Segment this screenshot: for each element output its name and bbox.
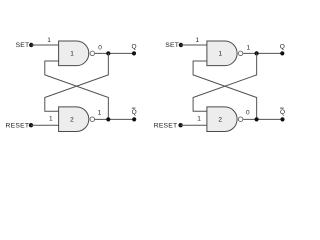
svg-text:1: 1 bbox=[98, 110, 102, 117]
svg-text:Q: Q bbox=[131, 43, 136, 50]
output bubble U2 (left latch) bbox=[90, 117, 95, 122]
output bubble U1 (left latch) bbox=[90, 51, 95, 56]
terminal dot SET (right latch) bbox=[179, 43, 183, 47]
terminal dot Q (right latch) bbox=[280, 51, 284, 55]
svg-text:2: 2 bbox=[70, 117, 74, 124]
wire U1 output to Q (right latch) bbox=[243, 52, 282, 54]
svg-text:SET: SET bbox=[165, 42, 179, 49]
junction dot on Q node (right latch) bbox=[255, 51, 259, 55]
svg-text:1: 1 bbox=[197, 115, 201, 122]
terminal dot Q (left latch) bbox=[132, 51, 136, 55]
wire U2 output to Q̄ (left latch) bbox=[95, 118, 134, 120]
svg-text:0: 0 bbox=[246, 110, 250, 117]
output bubble U2 (right latch) bbox=[238, 117, 243, 122]
junction dot on Q node (left latch) bbox=[106, 51, 110, 55]
svg-text:1: 1 bbox=[49, 115, 53, 122]
wire SET to U1 input pin (right latch) bbox=[181, 44, 207, 46]
terminal dot Q̄ (left latch) bbox=[132, 117, 136, 121]
svg-text:1: 1 bbox=[70, 51, 74, 58]
label Q̄ (left latch) bbox=[132, 108, 137, 116]
svg-text:Q: Q bbox=[132, 109, 137, 116]
output bubble U1 (right latch) bbox=[238, 51, 243, 56]
terminal dot Q̄ (right latch) bbox=[280, 117, 284, 121]
svg-text:0: 0 bbox=[98, 44, 102, 51]
svg-text:SET: SET bbox=[16, 42, 30, 49]
junction dot on Q̄ node (left latch) bbox=[106, 117, 110, 121]
NAND gate U2 (right latch) bbox=[207, 107, 237, 132]
wire U2 output to Q̄ (right latch) bbox=[243, 118, 282, 120]
svg-text:2: 2 bbox=[218, 117, 222, 124]
svg-text:Q: Q bbox=[280, 43, 285, 50]
NAND gate U1 (left latch) bbox=[59, 41, 89, 66]
terminal dot RESET (right latch) bbox=[178, 123, 182, 127]
svg-text:1: 1 bbox=[218, 51, 222, 58]
junction dot on Q̄ node (right latch) bbox=[255, 117, 259, 121]
wire U1 output to Q (left latch) bbox=[95, 52, 134, 54]
label Q̄ (right latch) bbox=[280, 108, 285, 116]
svg-text:1: 1 bbox=[195, 37, 199, 44]
terminal dot SET (left latch) bbox=[29, 43, 33, 47]
wire SET to U1 input pin (left latch) bbox=[31, 44, 59, 46]
NAND gate U1 (right latch) bbox=[207, 41, 237, 66]
feedback wire Q node to U2 upper input (right latch) bbox=[193, 53, 257, 111]
NAND gate U2 (left latch) bbox=[59, 107, 89, 132]
svg-text:RESET: RESET bbox=[154, 123, 178, 130]
svg-text:Q: Q bbox=[280, 109, 285, 116]
svg-text:1: 1 bbox=[47, 37, 51, 44]
wire RESET to U2 input pin (right latch) bbox=[181, 124, 208, 126]
feedback wire U1 lower input to Q̄ node (left latch) bbox=[45, 61, 109, 119]
wire RESET to U2 input pin (left latch) bbox=[31, 124, 59, 126]
svg-text:1: 1 bbox=[246, 44, 250, 51]
feedback wire Q node to U2 upper input (left latch) bbox=[45, 53, 109, 111]
svg-text:RESET: RESET bbox=[6, 123, 30, 130]
feedback wire U1 lower input to Q̄ node (right latch) bbox=[193, 61, 257, 119]
terminal dot RESET (left latch) bbox=[29, 123, 33, 127]
